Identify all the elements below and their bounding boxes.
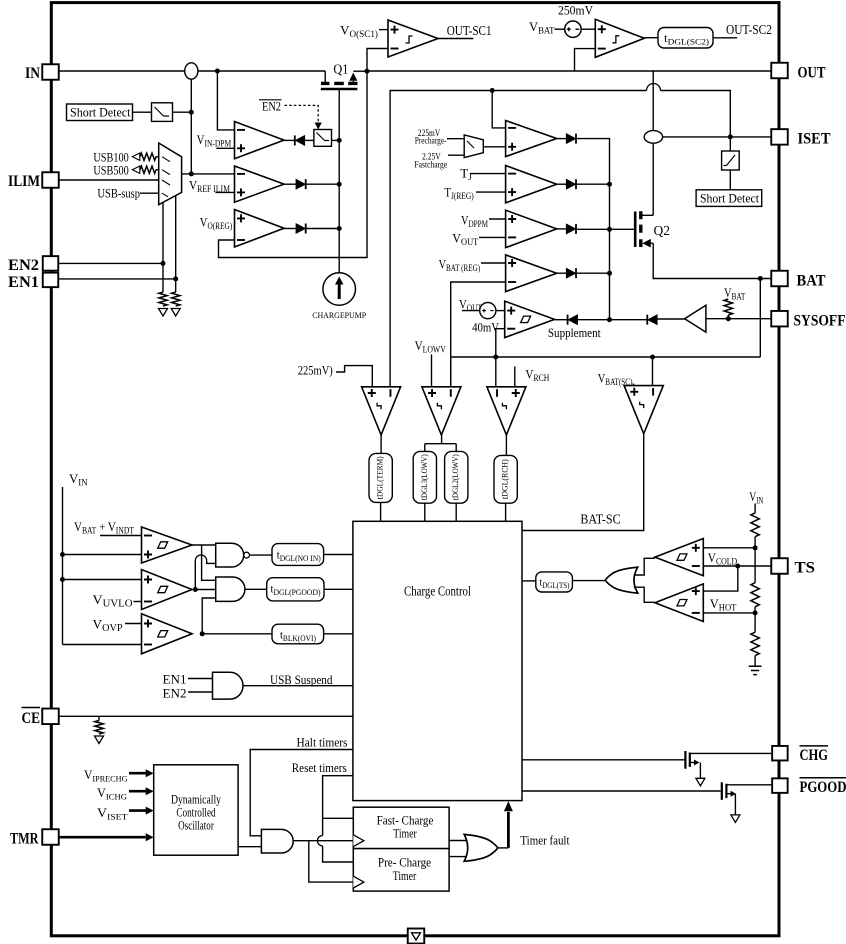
switch block (ISET short detect): [722, 151, 740, 170]
wire R1 to node: [754, 537, 756, 548]
svg-text:Supplement: Supplement: [548, 325, 601, 340]
wire comparator to diode (precharge): [557, 138, 567, 140]
Q1 body arrow: [349, 73, 357, 81]
wire comparator to diode (VDPPM): [557, 228, 567, 230]
junction sense tap / switch: [189, 110, 194, 115]
wire TJ diode to control bus: [577, 183, 610, 185]
wire pre timer to OR: [449, 856, 467, 858]
wire TS OR bottom input to VHOT: [634, 587, 655, 602]
svg-text:Dynamically: Dynamically: [171, 793, 222, 807]
wire IN sense tap down to ILIM mux out: [190, 79, 192, 174]
PGOOD transistor bars: [722, 782, 727, 800]
junction EN1 line: [173, 276, 178, 281]
EN2 control arrowhead: [315, 123, 322, 130]
AND gate (USB suspend): [213, 672, 244, 699]
ground EN2 pulldown: [159, 309, 168, 317]
junction SYSOFF / VBAT resistor: [726, 316, 731, 321]
delay block tDGL(TS): [536, 572, 573, 592]
Short Detect block (input): [67, 104, 133, 121]
pin BAT: [771, 271, 788, 287]
op-amp OVP comparator: [142, 614, 193, 654]
wire tDGL(NOIN) to charge control: [324, 554, 353, 556]
wire LOWV comparator output split: [441, 435, 443, 444]
wire VINDT branch to AND gate: [202, 545, 216, 580]
BAT sense rail: [451, 356, 761, 358]
junction TS line / VHOT: [735, 564, 740, 569]
transistor Q2 channel dashes: [639, 211, 642, 247]
svg-text:CE: CE: [22, 710, 41, 727]
wire ILIM pin to mux: [59, 179, 159, 181]
VISET arrow: [129, 809, 146, 812]
wire IN rail to VIN-DPM minus input: [217, 71, 234, 130]
wire IN pin to sense ellipse: [59, 70, 185, 72]
switch symbol (input short detect): [155, 107, 170, 116]
wire 225mV term ref: [336, 366, 372, 387]
wire VIN to UVLO plus: [63, 579, 142, 581]
delay block tDGL(SC2): [658, 28, 713, 49]
wire VHOT minus to divider: [703, 612, 755, 614]
Pre-Charge Timer block: [353, 849, 449, 892]
svg-text:tDGL(TERM): tDGL(TERM): [375, 456, 385, 499]
op-amp termination comparator: [362, 387, 401, 435]
op-amp OUT-SC1 comparator: [388, 20, 438, 57]
wire diode to gate rail (VREF-ILIM): [306, 183, 339, 185]
wire diode to switch (VIN-DPM): [305, 139, 314, 141]
wire VIN to divider R1: [754, 504, 756, 513]
junction BAT rail / VBAT(SC): [650, 355, 655, 360]
buffer triangle (SYSOFF): [685, 305, 706, 332]
wire AND to tDGL(PGOOD): [245, 588, 267, 590]
EN2 control overline: [259, 99, 282, 101]
junction BAT rail / supplement minus: [493, 355, 498, 360]
wire buffer to SYSOFF pin: [706, 318, 771, 320]
switch symbol (ISET short detect): [724, 155, 736, 166]
svg-text:USB500: USB500: [93, 164, 128, 178]
ground TS divider: [749, 666, 762, 674]
junction ISET net / bank comparator 1: [490, 88, 495, 93]
wire VIN-DPM plus stub: [216, 147, 234, 149]
svg-text:Q2: Q2: [654, 223, 671, 238]
junction Q1 drain node: [365, 69, 370, 74]
wire charge control to PGOOD transistor gate: [522, 790, 721, 792]
wire term comparator to delay: [380, 435, 382, 453]
wire node1 to R2: [754, 548, 756, 583]
delay block tBLK(OVI): [272, 624, 324, 644]
svg-text:Reset timers: Reset timers: [292, 761, 347, 775]
wire VDPPM diode to Q2 gate: [577, 228, 635, 230]
op-amp VBAT(REG) comparator: [506, 255, 557, 292]
wire OR to timer fault arrow: [498, 847, 509, 849]
svg-text:ISET: ISET: [798, 131, 832, 148]
wire charge control to CHG transistor gate: [522, 759, 684, 761]
wire VLOWV ref input: [431, 354, 433, 387]
resistor USB500: [140, 166, 156, 173]
pin SYSOFF: [771, 311, 788, 327]
op-amp TJ comparator: [506, 166, 557, 203]
svg-text:Fast- Charge: Fast- Charge: [377, 814, 434, 828]
wire mux to precharge comparator plus: [483, 146, 505, 148]
wire BAT rail to RCH comparator left: [495, 357, 497, 387]
wire tDGL2 to charge control: [455, 503, 457, 521]
pin EN2: [43, 256, 59, 271]
op-amp LOWV comparator: [422, 387, 461, 435]
op-amp VO(REG) comparator: [235, 210, 285, 248]
svg-text:OUT-SC2: OUT-SC2: [726, 22, 772, 37]
junction gate rail / VO(REG): [337, 226, 342, 231]
svg-text:OUT-SC1: OUT-SC1: [447, 23, 492, 38]
svg-text:BAT-SC: BAT-SC: [580, 512, 620, 527]
resistor TS divider R2: [751, 583, 759, 607]
wire ISET ellipse to Q2 source: [652, 143, 654, 215]
wire reset timers to pre-charge upper: [322, 818, 324, 835]
OR gate (TS, left-pointing): [605, 567, 638, 593]
wire UVLO comp to AND: [195, 589, 215, 591]
wire UVLO hop to NAND input: [207, 561, 216, 564]
svg-text:EN1: EN1: [163, 673, 187, 687]
op-amp VCOLD comparator: [655, 539, 703, 576]
wire tDGL(SC2) output: [714, 37, 738, 39]
diode VBAT(REG) comparator output: [566, 268, 576, 278]
wire ISET ellipse to ISET pin: [663, 136, 772, 138]
svg-text:Oscillator: Oscillator: [178, 819, 214, 833]
wire tDGL3 to charge control: [424, 503, 426, 521]
CHARGEPUMP arrow: [338, 283, 341, 299]
diode VDPPM comparator output: [566, 224, 576, 234]
svg-text:tDGL2(LOWV): tDGL2(LOWV): [451, 454, 461, 500]
svg-text:USB100: USB100: [93, 151, 128, 165]
wire BAT node down to BAT rail: [759, 279, 761, 358]
CHG transistor bars: [685, 751, 689, 769]
wire USB500 resistor to mux: [156, 169, 159, 171]
junction UVLO output: [193, 587, 198, 592]
wire comparator to diode (supplement): [555, 319, 568, 321]
wire short detect to switch: [133, 111, 152, 113]
ground EN1 pulldown: [171, 309, 180, 317]
Q1 source lead: [324, 71, 326, 83]
control bus vertical: [609, 184, 611, 320]
wire VIN rail to VOVP minus: [63, 644, 142, 646]
wire VOVP stub: [125, 623, 142, 625]
wire VOUT to offset source: [462, 310, 480, 312]
wire gate to pre-charge clock: [309, 841, 354, 882]
VIN status rail: [62, 487, 64, 645]
svg-text:Short Detect: Short Detect: [70, 106, 131, 120]
pin EN1: [43, 273, 59, 288]
Q1 gate rail: [338, 89, 340, 273]
junction mux output / sense tap: [189, 171, 194, 176]
svg-text:SYSOFF: SYSOFF: [794, 313, 846, 330]
wire ISET net left segment down to TERM comparator: [390, 91, 646, 387]
junction control bus / TJ: [607, 182, 612, 187]
junction control bus / VBAT(REG): [607, 271, 612, 276]
Fast-Charge Timer block: [353, 807, 449, 848]
svg-text:Pre- Charge: Pre- Charge: [378, 856, 432, 870]
CHG transistor source arrow: [691, 762, 698, 764]
svg-text:EN2: EN2: [8, 257, 39, 274]
wire diode to gate rail (VO(REG)): [306, 228, 339, 230]
delay block tDGL2(LOWV): [445, 451, 468, 503]
delay block tDGL(NOIN): [272, 544, 324, 566]
svg-text:TS: TS: [795, 560, 816, 577]
svg-text:Timer fault: Timer fault: [520, 834, 570, 848]
svg-text:PGOOD: PGOOD: [800, 779, 846, 796]
transistor Q1 gate bar: [321, 88, 358, 91]
wire ISET to switch block: [729, 137, 731, 151]
wire VBAT(REG) to comparator plus: [481, 262, 506, 264]
wire switch to Short Detect block: [729, 170, 731, 190]
wire comparator to diode (VO(REG)): [284, 228, 296, 230]
wire VDPPM to comparator plus: [489, 218, 506, 220]
junction ISET line / short detect: [728, 134, 733, 139]
AND gate (pgood): [216, 577, 245, 601]
NAND gate (no-input): [216, 543, 244, 567]
op-amp UVLO comparator: [142, 570, 193, 610]
wire CE pin to charge control: [59, 715, 353, 717]
wire diode to buffer (SYSOFF): [657, 318, 684, 320]
op-amp recharge comparator: [487, 387, 526, 435]
op-amp VDPPM comparator: [506, 210, 557, 247]
wire tDGL(TERM) to charge control: [380, 502, 382, 521]
Charge Control block: [353, 521, 522, 800]
switch block (input short detect): [152, 103, 173, 122]
current sense ellipse on ISET line: [644, 131, 662, 144]
svg-text:Charge Control: Charge Control: [404, 584, 471, 599]
wire mux output to VREF-ILIM minus: [182, 173, 235, 175]
Q2 body arrow: [642, 239, 651, 248]
wire EN2 pin: [59, 262, 164, 264]
wire TS OR top input to VCOLD: [634, 558, 655, 575]
VSS pin triangle: [412, 933, 421, 940]
wire switch to IN sense tap: [173, 111, 192, 113]
wire mux select EN2: [162, 202, 164, 292]
wire VBAT(SC) ref input: [633, 384, 635, 386]
op-amp supplement comparator: [505, 301, 555, 338]
Dynamically Controlled Oscillator block: [154, 765, 238, 855]
wire TJ to comparator minus: [470, 173, 506, 175]
wire comparator to diode (TJ): [557, 183, 567, 185]
wire BAT rail to LOWV comparator: [450, 357, 452, 387]
wire EN2 to suspend gate: [188, 691, 213, 693]
op-amp precharge/fastcharge comparator: [506, 121, 557, 157]
junction TS divider node 2: [753, 610, 758, 615]
svg-text:CHARGEPUMP: CHARGEPUMP: [312, 310, 366, 320]
resistor EN1 pulldown: [172, 292, 180, 306]
wire OUT rail to ISET sense ellipse: [652, 71, 654, 131]
ground CHG transistor: [696, 778, 705, 786]
ILIM mux trapezoid: [159, 143, 182, 205]
reference mux switch mark: [467, 141, 474, 148]
svg-text:Timer: Timer: [393, 827, 417, 841]
svg-text:Q1: Q1: [333, 62, 348, 77]
wire VUVLO stub: [134, 601, 142, 603]
CHARGEPUMP circle: [323, 273, 356, 306]
junction control bus / supplement: [607, 317, 612, 322]
USB500 arrowhead: [132, 166, 140, 173]
op-amp OUT-SC2 comparator: [595, 19, 644, 57]
PGOOD transistor source arrow: [727, 793, 734, 795]
diode supplement output: [568, 315, 578, 325]
250mV offset source circle: [565, 21, 581, 37]
wire OUT-SC1 output: [438, 38, 473, 40]
wire EN1 pin: [59, 278, 176, 280]
diode precharge comparator output: [566, 134, 576, 144]
wire RCH comparator to delay: [505, 435, 507, 455]
OR gate (timer fault): [464, 834, 498, 861]
wire VO(REG) feedback from OUT node: [219, 71, 368, 258]
wire VO(SC1) to comparator plus: [379, 29, 388, 31]
pin TMR: [42, 829, 59, 845]
wire reset timers to pre-charge: [323, 846, 354, 862]
wire supplement minus to BAT rail: [496, 329, 505, 357]
ground PGOOD transistor: [731, 815, 740, 823]
resistor VBAT to SYSOFF: [724, 299, 732, 315]
op-amp BAT short comparator: [624, 386, 663, 434]
wire EN1 to suspend gate: [188, 678, 213, 680]
wire VBAT+VINDT stub: [100, 535, 142, 537]
svg-text:225mV): 225mV): [298, 364, 333, 378]
wire hop UVLO over VINDT branch: [195, 555, 206, 561]
wire BAT-SC comparator to charge control: [522, 434, 644, 531]
wire VBAT(REG) minus to BAT rail: [451, 282, 506, 387]
wire OUT-SC2 minus to OUT rail: [575, 49, 596, 71]
TMR arrow into oscillator: [59, 836, 146, 839]
wire precharge ref to mux: [447, 138, 464, 140]
op-amp input-detect comparator: [142, 527, 193, 563]
svg-text:OUT: OUT: [798, 65, 827, 82]
wire comparator to diode (VIN-DPM): [284, 139, 295, 141]
svg-text:CHG: CHG: [800, 747, 829, 764]
wire BAT rail to BAT-SC comparator: [652, 357, 654, 386]
pin PGOOD: [772, 778, 788, 793]
resistor CE pulldown: [95, 721, 103, 735]
svg-text:Timer: Timer: [393, 869, 417, 883]
pin CHG: [772, 746, 788, 761]
wire source to supplement plus: [496, 310, 505, 312]
timer fault arrow: [507, 812, 510, 848]
wire hop over OUT tap: [647, 84, 661, 91]
Short Detect block (ISET): [696, 190, 762, 207]
diode VO(REG) output: [296, 224, 306, 234]
wire EN1 junction to pulldown: [175, 279, 177, 292]
ILIM mux switch marks: [162, 157, 170, 197]
wire reset timers: [323, 776, 354, 819]
wire PGOOD transistor drain to pin: [726, 784, 771, 786]
svg-text:USB-susp: USB-susp: [97, 187, 140, 201]
delay block tDGL(TERM): [369, 453, 392, 502]
svg-text:250mV: 250mV: [558, 4, 593, 18]
resistor USB100: [140, 153, 156, 160]
svg-text:Fastcharge: Fastcharge: [414, 160, 447, 170]
op-amp VHOT comparator: [655, 584, 703, 622]
pin OUT: [771, 63, 788, 79]
pin TS: [771, 558, 788, 574]
wire UVLO to NAND with hop: [194, 561, 196, 590]
wire VCOLD minus to TS pin: [703, 565, 771, 567]
pin ISET: [771, 129, 788, 145]
svg-text:tDGL(RCH): tDGL(RCH): [500, 459, 510, 499]
wire USB100 resistor to mux: [156, 156, 159, 158]
wire Q2 drain to BAT pin: [653, 243, 771, 278]
pin IN: [42, 64, 59, 80]
wire LOWV split bar: [425, 443, 456, 445]
wire halt timers: [250, 750, 353, 836]
wire ISET net to precharge comparator minus: [492, 91, 505, 128]
ground CE pulldown: [95, 736, 104, 744]
wire node2 to R3: [754, 613, 756, 632]
junction OVP output: [200, 631, 205, 636]
wire comparator to diode (VBAT(REG)): [557, 272, 567, 274]
wire mux select EN1: [175, 196, 177, 279]
svg-text:EN2: EN2: [163, 687, 187, 701]
wire Q1 drain to OUT rail junction: [353, 70, 367, 72]
switch symbol (DPM): [317, 133, 330, 141]
svg-text:40mV: 40mV: [472, 321, 499, 335]
junction gate rail / DPM switch: [337, 138, 342, 143]
diode SYSOFF: [647, 315, 657, 325]
wire LOWV split right: [455, 444, 457, 452]
40mV offset source circle: [480, 303, 496, 319]
wire LOWV split left: [424, 444, 426, 452]
resistor TS divider R1: [751, 513, 759, 537]
wire source to OUT-SC2 plus: [581, 28, 595, 30]
op-amp VIN-DPM comparator: [235, 122, 285, 159]
wire VBAT(REG) diode to control bus: [577, 272, 610, 274]
pin CE: [42, 709, 59, 725]
svg-text:Precharge-: Precharge-: [415, 136, 447, 146]
svg-text:Controlled: Controlled: [176, 806, 216, 820]
svg-text:IN: IN: [25, 65, 40, 82]
junction VIN rail / UVLO comp: [60, 577, 65, 582]
pin ILIM: [42, 172, 59, 188]
transistor Q2 gate bar: [634, 212, 637, 248]
clock input triangle fast: [353, 835, 364, 847]
wire fastcharge ref to mux: [448, 154, 464, 156]
junction gate rail / VREF-ILIM: [337, 182, 342, 187]
wire VRCH ref input: [514, 367, 516, 387]
wire USB-susp to mux: [140, 192, 159, 194]
svg-text:ILIM: ILIM: [8, 173, 40, 190]
svg-text:Short Detect: Short Detect: [700, 192, 760, 206]
reference mux trapezoid: [464, 135, 483, 158]
junction BAT node: [758, 276, 763, 281]
svg-text:EN1: EN1: [8, 274, 39, 291]
wire VOUT to comparator minus: [479, 236, 506, 238]
VIPRECHG arrow: [129, 772, 146, 775]
diode VIN-DPM output: [295, 135, 305, 145]
svg-text:EN2: EN2: [262, 100, 281, 114]
wire OVP to AND gate: [202, 598, 216, 634]
clock input triangle pre: [353, 876, 364, 888]
delay block tDGL(RCH): [494, 455, 517, 503]
wire tDGL(PGOOD) to charge control: [324, 588, 353, 590]
wire precharge diode to control bus: [577, 139, 610, 185]
junction control bus / VDPPM: [607, 227, 612, 232]
VICHG arrow: [129, 790, 146, 793]
wire R3 to ground: [754, 656, 756, 667]
op-amp VREF-ILIM comparator: [235, 166, 285, 202]
diode TJ comparator output: [566, 179, 576, 189]
wire VCOLD plus to divider: [703, 547, 755, 549]
wire tDGL(RCH) to charge control: [505, 503, 507, 521]
wire gate to fast-charge clock: [294, 840, 354, 842]
wire OUT-SC2 to delay: [644, 37, 658, 39]
wire charge control to tDGL(TS): [522, 580, 536, 582]
delay block tDGL3(LOWV): [413, 451, 436, 503]
wire CHG source to ground: [699, 763, 701, 779]
delay block tDGL(PGOOD): [267, 578, 324, 601]
current sense ellipse on IN rail: [185, 63, 198, 79]
wire NAND to tDGL(NOIN): [250, 554, 273, 556]
